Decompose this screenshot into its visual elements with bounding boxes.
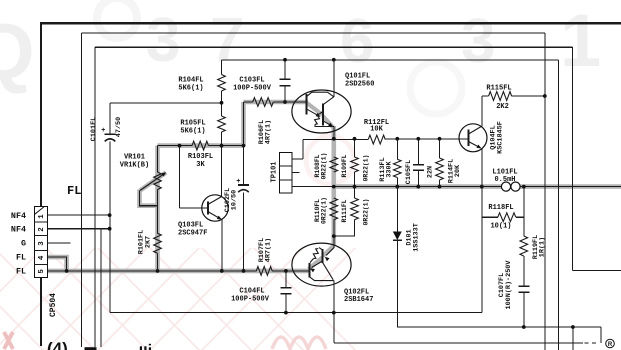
svg-text:0R22(1): 0R22(1) — [321, 197, 328, 224]
wire: NF4 / Q104 emitter return — [109, 103, 111, 313]
resistor R118FL 10(1) — [482, 216, 498, 218]
svg-text:1R(1): 1R(1) — [539, 237, 547, 257]
svg-text:5: 5 — [38, 269, 46, 274]
capacitor C104FL 100P-500V — [285, 271, 287, 288]
highlighted signal path (gray) — [45, 102, 621, 271]
svg-text:3: 3 — [146, 6, 180, 75]
wire: FL loop (2nd frame) — [81, 32, 544, 34]
svg-text:C104FL: C104FL — [239, 288, 264, 296]
resistor R113FL 330K — [396, 139, 398, 160]
resistor R104FL 5K6(1) — [221, 60, 223, 75]
svg-text:(4): (4) — [47, 339, 68, 350]
svg-text:FL: FL — [67, 184, 81, 198]
wire: bottom stub — [572, 327, 574, 350]
svg-text:100P-500V: 100P-500V — [233, 85, 272, 93]
svg-text:+: + — [236, 178, 240, 186]
svg-text:2: 2 — [38, 227, 46, 232]
svg-text:7: 7 — [210, 6, 244, 75]
svg-text:100N(R)-250V: 100N(R)-250V — [505, 260, 513, 310]
svg-text:1: 1 — [560, 0, 601, 82]
svg-text:VR1K(B): VR1K(B) — [120, 162, 149, 170]
junction dots on bus — [65, 269, 69, 273]
inductor L101FL 0.5mH — [501, 182, 510, 191]
svg-text:0.5mH: 0.5mH — [494, 176, 515, 184]
svg-text:VR101: VR101 — [124, 154, 145, 162]
connector CP504 — [35, 207, 48, 278]
resistor R103FL 3K — [158, 145, 193, 147]
svg-text:R111FL: R111FL — [341, 199, 348, 222]
resistor R105FL 5K6(1) — [221, 103, 223, 116]
svg-text:2K7: 2K7 — [144, 236, 152, 248]
svg-text:Q103FL: Q103FL — [178, 222, 203, 230]
svg-text:10/50: 10/50 — [231, 190, 239, 210]
wire: NF4 branch down — [100, 229, 102, 347]
svg-text:3: 3 — [461, 7, 495, 76]
svg-text:+: + — [101, 127, 105, 135]
diode D101 1SS133T — [396, 187, 398, 232]
wire: output node rail (node FL out) — [292, 186, 621, 188]
svg-text:TP101: TP101 — [270, 161, 278, 182]
svg-text:R115FL: R115FL — [486, 85, 511, 93]
junction dots on emitter node — [332, 137, 336, 141]
svg-text:10K: 10K — [370, 126, 383, 134]
svg-text:NF4: NF4 — [11, 211, 26, 221]
wire Q103 collector — [221, 146, 223, 197]
svg-text:100P-500V: 100P-500V — [231, 296, 270, 304]
registered mark — [606, 339, 615, 348]
svg-text:3K: 3K — [196, 161, 205, 169]
svg-text:R105FL: R105FL — [180, 120, 205, 128]
svg-text:4R7(1): 4R7(1) — [265, 120, 273, 144]
svg-text:0R22(1): 0R22(1) — [363, 199, 370, 226]
resistor R109FL 0R22(1) — [354, 139, 356, 157]
svg-text:0R22(1): 0R22(1) — [363, 155, 370, 182]
svg-text:KSC1845F: KSC1845F — [497, 121, 505, 154]
capacitor C103FL 100P-500V — [284, 60, 286, 80]
svg-text:3: 3 — [38, 241, 46, 246]
svg-text:R: R — [608, 342, 613, 348]
resistor R106FL 4R7(1) — [244, 101, 253, 103]
resistor R108FL 0R22(1) — [330, 157, 338, 172]
transistor Q103 2SC947F — [202, 195, 228, 221]
svg-text:0R22(1): 0R22(1) — [321, 153, 328, 180]
wire: pin1 NF4 — [48, 214, 110, 216]
svg-text:2SC947F: 2SC947F — [178, 230, 207, 238]
wire: pin2 NF4 — [48, 228, 110, 230]
svg-text:C105FL: C105FL — [405, 160, 413, 184]
svg-text:Q: Q — [0, 7, 35, 95]
resistor R115FL 2K2 — [482, 95, 489, 97]
svg-text:2SB1647: 2SB1647 — [344, 296, 373, 304]
svg-text:4: 4 — [38, 255, 46, 260]
svg-text:330K: 330K — [386, 160, 394, 177]
transistor Q104 KSC1845F — [459, 124, 487, 152]
svg-text:R118FL: R118FL — [488, 204, 513, 212]
resistor R101FL 2K7 — [154, 233, 162, 253]
wire: bottom return — [397, 326, 601, 328]
svg-text:10(1): 10(1) — [490, 223, 511, 231]
potentiometer VR101 VR1K(B) — [157, 146, 159, 172]
svg-text:NF4: NF4 — [11, 224, 26, 234]
resistor R110FL 0R22(1) — [330, 198, 338, 220]
svg-text:22N: 22N — [426, 166, 434, 178]
svg-text:4R7(1): 4R7(1) — [265, 238, 273, 262]
svg-text:C101FL: C101FL — [90, 117, 98, 141]
capacitor C102FL 10/50 — [243, 102, 245, 146]
svg-text:CP504: CP504 — [49, 293, 58, 317]
resistor R111FL 0R22(1) — [354, 187, 356, 198]
capacitor C107FL 100N(R)-250V — [518, 285, 529, 287]
svg-text:1SS133T: 1SS133T — [412, 223, 420, 252]
test point TP101 — [280, 153, 293, 194]
svg-text:20K: 20K — [454, 164, 462, 177]
svg-text:Q101FL: Q101FL — [345, 73, 370, 81]
transistor Q101 2SD2560 (darlington) — [292, 90, 351, 133]
wire: pin3 G stub — [48, 242, 71, 244]
wire: 3rd frame loop — [95, 46, 572, 48]
svg-text:R103FL: R103FL — [188, 153, 213, 161]
bus / Q102 base line with R107 — [48, 270, 257, 272]
resistor R114FL 20K — [439, 139, 441, 158]
junction dots on output rail — [332, 185, 336, 189]
wire: pin4 FL hook — [48, 257, 67, 271]
svg-text:G: G — [21, 239, 26, 249]
svg-text:C103FL: C103FL — [239, 77, 264, 85]
transistor Q102 2SB1647 (darlington) — [292, 243, 351, 286]
svg-text:2K2: 2K2 — [496, 103, 509, 111]
svg-text:5K6(1): 5K6(1) — [180, 128, 205, 136]
svg-text:47/50: 47/50 — [115, 117, 123, 137]
capacitor C101 47/50 — [105, 135, 116, 141]
svg-text:6: 6 — [340, 7, 374, 76]
svg-text:5K6(1): 5K6(1) — [178, 85, 203, 93]
wire: outer border (thick) — [40, 22, 621, 24]
svg-text:FL: FL — [16, 253, 26, 263]
resistor R119FL 1R(1) — [523, 217, 525, 236]
capacitor C105FL 22N — [417, 139, 419, 165]
node line (Q101 emitter) y=139.6 — [303, 139, 368, 141]
wire: supply rail — [222, 59, 559, 61]
svg-text:1: 1 — [38, 214, 46, 219]
wire: Q102 collector return — [333, 313, 335, 343]
svg-text:FL: FL — [16, 267, 26, 277]
svg-text:2SD2560: 2SD2560 — [345, 81, 374, 89]
svg-text:R109FL: R109FL — [341, 154, 348, 177]
svg-text:R104FL: R104FL — [178, 77, 203, 85]
